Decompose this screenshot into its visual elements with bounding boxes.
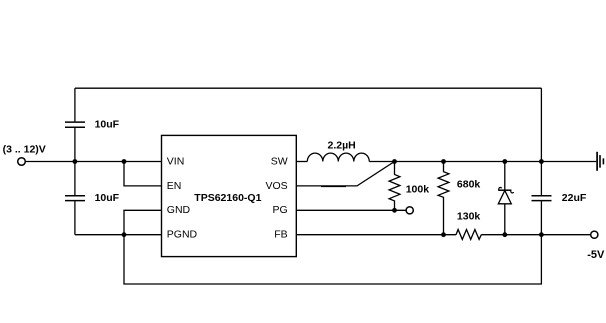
- svg-text:(3 .. 12)V: (3 .. 12)V: [3, 144, 46, 156]
- svg-text:PGND: PGND: [167, 229, 198, 241]
- svg-text:EN: EN: [167, 180, 182, 192]
- svg-text:-5V: -5V: [587, 249, 605, 261]
- svg-text:130k: 130k: [457, 211, 481, 223]
- svg-text:680k: 680k: [457, 179, 481, 191]
- svg-text:VOS: VOS: [266, 180, 288, 192]
- svg-text:10uF: 10uF: [95, 119, 120, 131]
- svg-text:GND: GND: [167, 204, 191, 216]
- svg-text:TPS62160-Q1: TPS62160-Q1: [194, 192, 261, 204]
- svg-text:22uF: 22uF: [562, 192, 587, 204]
- svg-text:PG: PG: [273, 204, 288, 216]
- svg-text:10uF: 10uF: [95, 192, 120, 204]
- svg-text:2.2µH: 2.2µH: [328, 139, 356, 151]
- svg-text:VIN: VIN: [167, 155, 185, 167]
- svg-text:FB: FB: [274, 229, 287, 241]
- svg-text:SW: SW: [271, 155, 288, 167]
- svg-text:100k: 100k: [406, 184, 430, 196]
